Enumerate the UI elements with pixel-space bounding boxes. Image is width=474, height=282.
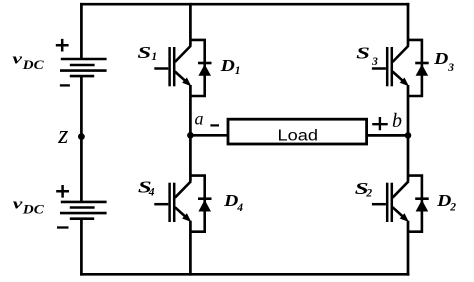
node a	[187, 132, 194, 139]
plus sign battery top	[56, 39, 69, 52]
transistor S3	[372, 46, 409, 87]
diode D3	[408, 40, 429, 96]
wire bottom rail	[80, 273, 409, 276]
svg-text:D: D	[436, 191, 451, 210]
wire middle branch lower	[189, 221, 192, 276]
svg-text:2: 2	[365, 187, 372, 199]
svg-text:Load: Load	[278, 127, 319, 144]
svg-text:S: S	[137, 43, 151, 62]
wire right branch upper	[407, 3, 410, 46]
svg-text:D: D	[220, 56, 235, 75]
battery v_DC top	[60, 59, 107, 76]
svg-text:DC: DC	[22, 203, 45, 217]
diode D4	[190, 176, 211, 232]
label S3	[356, 43, 378, 68]
wire load to node b	[366, 134, 408, 137]
label vDC top	[12, 51, 44, 72]
wire left branch middle	[80, 76, 83, 202]
battery v_DC bottom	[60, 202, 107, 219]
svg-text:4: 4	[236, 202, 243, 214]
svg-text:S: S	[356, 43, 370, 62]
node b	[405, 132, 412, 139]
transistor S4	[154, 181, 191, 222]
plus sign load	[372, 117, 388, 130]
svg-text:4: 4	[148, 186, 155, 198]
minus sign load	[210, 124, 219, 126]
load box	[228, 119, 367, 144]
label D1	[220, 56, 241, 77]
wire top rail	[80, 3, 409, 6]
svg-text:v: v	[12, 51, 22, 67]
plus sign battery bottom	[56, 185, 69, 198]
diode D2	[408, 176, 429, 232]
svg-text:3: 3	[447, 62, 454, 74]
svg-text:v: v	[13, 197, 23, 213]
diode D1	[190, 40, 211, 96]
label D2	[436, 191, 456, 214]
label D4	[223, 191, 243, 214]
transistor S1	[154, 46, 191, 87]
label D3	[433, 49, 454, 74]
minus sign battery top	[60, 84, 70, 86]
minus sign battery bottom	[57, 226, 69, 228]
svg-text:1: 1	[235, 65, 241, 77]
wire middle branch center	[189, 85, 192, 182]
svg-text:a: a	[195, 108, 204, 128]
wire left branch upper	[80, 3, 83, 59]
svg-text:3: 3	[371, 56, 378, 68]
label S2	[355, 179, 373, 199]
label S4	[138, 177, 155, 198]
node z	[78, 133, 85, 140]
svg-text:D: D	[223, 191, 238, 210]
svg-text:DC: DC	[22, 58, 45, 72]
svg-text:2: 2	[449, 201, 456, 213]
svg-text:D: D	[433, 49, 448, 68]
svg-text:1: 1	[151, 51, 157, 63]
svg-text:z: z	[57, 120, 68, 149]
wire right branch lower	[407, 221, 410, 276]
label S1	[137, 43, 157, 63]
label vDC bottom	[13, 197, 45, 217]
wire middle branch upper	[189, 3, 192, 46]
wire node a to load	[190, 134, 228, 137]
wire right branch center	[407, 85, 410, 182]
svg-text:b: b	[392, 110, 402, 132]
wire left branch lower	[80, 219, 83, 276]
transistor S2	[372, 181, 409, 222]
